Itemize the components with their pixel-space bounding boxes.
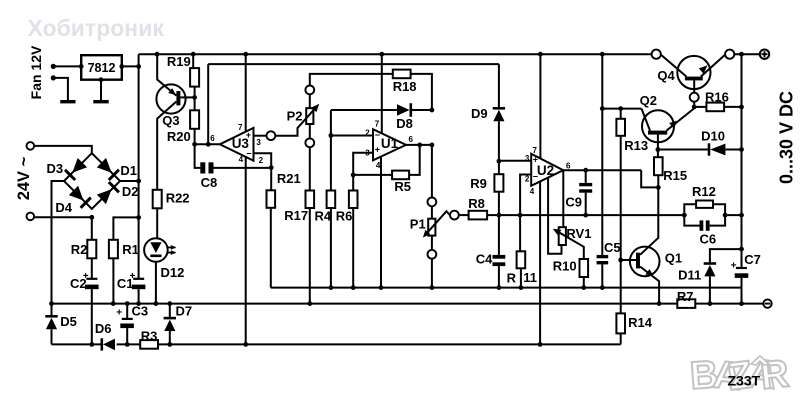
node Q3 emitter rail (155, 52, 160, 57)
wire Vref to D9 (498, 64, 500, 107)
svg-text:D10: D10 (701, 128, 725, 143)
svg-text:R15: R15 (663, 168, 687, 183)
wire U1 out to P1 (431, 145, 433, 198)
wire AC2 to R2 (91, 217, 93, 240)
resistor R7 (677, 299, 695, 308)
potentiometer P1 (428, 219, 435, 236)
svg-text:3: 3 (256, 138, 261, 147)
connector P2 top (305, 86, 314, 95)
node C8 R21 junction (269, 165, 274, 170)
svg-text:R: R (507, 271, 517, 286)
wire analog ground rail (271, 287, 742, 289)
wire U1 pin7 (381, 54, 383, 133)
svg-text:0...30 V DC: 0...30 V DC (776, 91, 796, 184)
svg-text:Q2: Q2 (640, 93, 657, 108)
svg-text:R19: R19 (167, 54, 191, 69)
svg-text:U2: U2 (537, 163, 554, 178)
connector R8 left (450, 211, 459, 220)
svg-text:C6: C6 (700, 232, 717, 247)
wire U1 output (406, 144, 432, 146)
op-amp U2 (531, 154, 563, 186)
resistor R14 (616, 313, 625, 333)
svg-text:D9: D9 (471, 106, 488, 121)
node U3 out junction (192, 142, 197, 147)
wire P1 wiper (427, 211, 450, 233)
svg-text:4: 4 (530, 187, 535, 196)
diode D5 (45, 315, 57, 318)
wire U1 pin4 (380, 157, 382, 288)
svg-text:D11: D11 (678, 268, 701, 283)
transistor Q3 (156, 84, 185, 113)
svg-text:D5: D5 (60, 314, 77, 329)
connector Q4 emitter in (652, 50, 661, 59)
svg-text:Z33T: Z33T (728, 373, 761, 389)
wire D8 row (331, 109, 397, 111)
svg-text:D7: D7 (176, 303, 193, 318)
diode D10 (708, 143, 711, 155)
wire P2 bottom (309, 124, 311, 138)
connector P2 bottom (305, 138, 314, 147)
capacitor C2 (86, 278, 97, 280)
svg-text:4: 4 (239, 155, 244, 164)
svg-text:+: + (533, 155, 538, 165)
node R12 right (723, 213, 728, 218)
svg-text:−: − (246, 148, 251, 158)
node bridge AC2 junction (89, 215, 94, 220)
svg-text:+: + (731, 261, 737, 272)
svg-text:R2: R2 (71, 242, 88, 257)
resistor R6 (349, 191, 358, 209)
ground fan (53, 78, 68, 100)
node R17 ground (307, 301, 312, 306)
node R1 ground (111, 301, 116, 306)
node R19 rail (191, 52, 196, 57)
wire RV1 top from U2 out (562, 170, 564, 227)
wire bridge plus to main column (120, 180, 139, 182)
wire main positive column (138, 54, 140, 279)
wire Q2 base lead (657, 135, 659, 150)
svg-text:R4: R4 (315, 209, 332, 224)
node Q2 feed (600, 106, 605, 111)
diode D3 bridge (72, 158, 87, 173)
wire P1 bottom lead (431, 236, 433, 250)
op-amp U1 (373, 129, 406, 160)
wire U3 pin2 loop (254, 153, 272, 167)
capacitor C1 (133, 278, 144, 280)
resistor R17 (306, 191, 315, 209)
svg-text:R1: R1 (122, 242, 139, 257)
diode D2 bridge (97, 189, 112, 204)
wire top rail (139, 53, 652, 55)
wire U3 output (195, 143, 220, 145)
resistor R22 (153, 190, 162, 209)
svg-text:R6: R6 (336, 209, 353, 224)
wire aux negative bus (52, 343, 102, 345)
diode D11 (704, 262, 716, 265)
diode D1 bridge (97, 158, 112, 173)
svg-text:R9: R9 (470, 176, 487, 191)
svg-text:C1: C1 (117, 276, 134, 291)
node 7812 out junction (136, 64, 141, 69)
wire D12 to ground bus (155, 262, 157, 304)
svg-text:U1: U1 (381, 136, 399, 151)
svg-text:C8: C8 (201, 175, 218, 190)
svg-text:7: 7 (533, 146, 538, 155)
wire Q3 base (180, 96, 194, 98)
svg-text:D6: D6 (95, 321, 112, 336)
svg-text:Q3: Q3 (162, 113, 179, 128)
regulator U4 7812 (81, 55, 122, 79)
ground 7812 (100, 80, 102, 101)
op-amp U3 (220, 128, 254, 161)
node R8 C4 junction (497, 213, 502, 218)
node C7 top tap (739, 247, 744, 252)
node Q1 base R13 (618, 258, 623, 263)
svg-text:P2: P2 (287, 108, 303, 123)
node output column top (739, 52, 744, 57)
wire AC2 to bridge bottom (34, 216, 92, 218)
svg-text:D4: D4 (55, 200, 72, 215)
svg-text:D1: D1 (120, 163, 137, 178)
resistor R4 (327, 191, 336, 209)
svg-text:R3: R3 (141, 328, 158, 343)
svg-text:−: − (533, 171, 538, 181)
node U2 pin2 sense (518, 213, 523, 218)
potentiometer P2 (306, 108, 313, 124)
wire Vref rail (208, 63, 499, 65)
capacitor C7 (736, 267, 747, 269)
wire Q4 base to node (693, 102, 695, 107)
svg-text:Хобитроник: Хобитроник (28, 15, 165, 41)
terminal AC in top (27, 142, 35, 150)
connector Q4 base (690, 93, 699, 102)
connector Q4 collector out (725, 50, 734, 59)
wire U2 pin2 (520, 175, 531, 216)
wire D5 to aux bus (51, 329, 53, 344)
node bridge plus (136, 179, 141, 184)
node ground bus left end (49, 301, 54, 306)
led D12 (144, 238, 168, 262)
node R5 left junction (351, 173, 356, 178)
svg-text:+: + (116, 308, 122, 319)
resistor R12 (684, 204, 696, 215)
terminal AC in bottom (27, 213, 35, 221)
node R5 feedback tap (417, 143, 422, 148)
resistor R13 (620, 109, 622, 119)
wire U2 pin4 (539, 181, 541, 344)
wire D11 branch (710, 249, 742, 262)
svg-text:6: 6 (210, 134, 215, 143)
svg-text:2: 2 (259, 156, 264, 165)
watermark BAZAR (689, 351, 791, 399)
wire to U2 pin3 (499, 160, 531, 162)
svg-text:R20: R20 (167, 129, 191, 144)
wire Q4 base lead (693, 80, 695, 92)
svg-text:R18: R18 (393, 79, 417, 94)
svg-text:D12: D12 (161, 265, 185, 280)
wire R18 right (411, 74, 432, 110)
wire bridge minus leg (52, 181, 65, 316)
svg-text:R10: R10 (553, 258, 577, 273)
svg-text:7812: 7812 (88, 61, 116, 75)
node C1 top junction (136, 215, 141, 220)
node Q1 emitter gnd (657, 301, 662, 306)
wire C1 to ground bus (138, 289, 140, 303)
resistor R8 (459, 214, 469, 216)
node Fan terminal pins (51, 64, 56, 69)
svg-text:R16: R16 (705, 89, 729, 104)
node R12 left (682, 213, 687, 218)
wire R12 to output column (725, 214, 741, 216)
resistor R11 (519, 215, 521, 251)
diode D6 (101, 338, 104, 350)
svg-text:C4: C4 (476, 251, 493, 266)
node C9 top (583, 168, 588, 173)
svg-text:2: 2 (365, 129, 370, 138)
wire D10 row (658, 149, 709, 151)
node D9 R9 junction (497, 159, 502, 164)
wire P1 top lead (431, 206, 433, 218)
wire R5 right (409, 145, 420, 175)
resistor R19 (192, 54, 194, 68)
wire R1 tap (113, 217, 138, 239)
svg-text:R21: R21 (277, 171, 301, 186)
svg-text:6: 6 (409, 135, 414, 144)
resistor R2 (87, 240, 96, 258)
wire Q1 base (621, 259, 636, 261)
svg-text:3: 3 (365, 149, 370, 158)
node U1 out column (430, 143, 435, 148)
svg-text:7: 7 (375, 120, 380, 129)
wire U3 pin7 (245, 54, 247, 132)
svg-text:Fan 12V: Fan 12V (28, 45, 44, 99)
svg-text:R22: R22 (166, 190, 190, 205)
node R16 right (739, 105, 744, 110)
resistor R5 (392, 171, 409, 180)
svg-text:Q4: Q4 (657, 68, 675, 83)
wire Q2 base feed (602, 108, 641, 110)
node C7 gnd (739, 301, 744, 306)
capacitor C4 (498, 215, 500, 255)
wire RV1 wiper (556, 231, 584, 259)
capacitor C9 (585, 170, 587, 183)
svg-text:24V ~: 24V ~ (15, 156, 33, 200)
svg-text:C9: C9 (565, 195, 582, 210)
svg-text:R12: R12 (692, 184, 716, 199)
wire D8 to U1 out column (411, 109, 432, 111)
transistor Q1 (630, 247, 660, 277)
svg-text:R14: R14 (628, 315, 653, 330)
svg-text:11: 11 (523, 270, 537, 285)
wire output rail right (734, 53, 760, 55)
wire U1 pin3 jog (353, 153, 373, 191)
connector U3 to P2 wiper (267, 131, 276, 140)
node R13 top (618, 106, 623, 111)
resistor R1 (109, 240, 118, 258)
wire bridge diamond (64, 153, 120, 209)
wire R5 left (353, 174, 392, 176)
svg-text:D2: D2 (122, 184, 139, 199)
svg-text:D8: D8 (396, 116, 413, 131)
wire R4 column (330, 110, 332, 191)
wire P2 top (309, 94, 311, 108)
wire AC1 to bridge top (34, 146, 92, 153)
terminal minus output (763, 299, 771, 307)
svg-text:7: 7 (238, 123, 243, 132)
resistor R10 (580, 259, 589, 277)
node Vref column junction (206, 142, 211, 147)
wire U3 pin4 (245, 157, 247, 345)
wire U3 pin3 out (254, 135, 267, 137)
connector P1 top (428, 198, 437, 207)
transistor Q4 (677, 56, 710, 89)
diode D4 bridge (69, 186, 84, 201)
node U1 pin2 junction (329, 133, 334, 138)
node R15 bottom (656, 185, 661, 190)
capacitor C6 (684, 215, 699, 226)
wire output column (741, 54, 743, 268)
wire wiper to P2 (275, 106, 317, 136)
wire 7812 output (122, 65, 140, 67)
terminal plus output (760, 50, 769, 59)
resistor R9 (498, 161, 500, 174)
svg-text:−: − (375, 130, 380, 140)
capacitor C8 (195, 144, 201, 168)
wire P2 to R17 (309, 147, 311, 190)
wire fan+ to 7812 input (53, 65, 81, 67)
node R16 left (692, 105, 697, 110)
connector P1 bottom (428, 250, 437, 259)
capacitor C5 (597, 255, 609, 258)
trimmer RV1 (559, 227, 566, 245)
resistor R18 (393, 70, 411, 79)
wire Vplus sense column (601, 54, 603, 255)
svg-text:C3: C3 (132, 303, 149, 318)
node D11 gnd (708, 301, 713, 306)
resistor R15 (657, 150, 659, 158)
wire P1 to analog gnd (431, 259, 433, 288)
wire R8 sense rail (499, 214, 684, 216)
diode D8 (409, 103, 412, 117)
wire D10 to output column (725, 149, 741, 151)
transistor Q2 (642, 110, 674, 142)
svg-text:R13: R13 (624, 138, 648, 153)
svg-text:C2: C2 (70, 276, 87, 291)
wire R2 to C2 (91, 258, 93, 279)
wire U2 out to Q1 (641, 170, 658, 187)
diode D7 (169, 304, 171, 317)
resistor R3 (140, 340, 158, 349)
resistor R20 (194, 97, 196, 110)
svg-text:C7: C7 (744, 252, 761, 267)
svg-text:2: 2 (525, 174, 530, 183)
svg-text:P1: P1 (410, 217, 426, 232)
wire Vref column (207, 64, 209, 144)
resistor R21 (270, 168, 272, 191)
wire U2 output (563, 169, 641, 171)
wire C2 to aux bus (91, 289, 93, 344)
diode D9 (493, 107, 505, 110)
svg-text:R7: R7 (677, 289, 694, 304)
node Q2 base node (656, 147, 661, 152)
svg-text:R17: R17 (284, 208, 308, 223)
wire U2 pin7 (539, 54, 541, 158)
svg-text:3: 3 (525, 154, 530, 163)
wire P2 top to R18 (310, 74, 393, 86)
svg-text:D3: D3 (47, 161, 64, 176)
wire U2 offset pin (548, 177, 561, 253)
resistor R16 (694, 106, 706, 108)
svg-text:Q1: Q1 (665, 251, 682, 266)
svg-text:C5: C5 (604, 240, 621, 255)
capacitor C3 (126, 304, 128, 319)
wire R1 to ground bus (112, 258, 114, 303)
wire U1 pin2 (331, 135, 373, 137)
wire ground bus (52, 303, 678, 305)
svg-text:R8: R8 (468, 196, 485, 211)
wire R8 right (487, 214, 499, 216)
svg-text:+: + (375, 144, 380, 154)
svg-text:R5: R5 (394, 179, 411, 194)
